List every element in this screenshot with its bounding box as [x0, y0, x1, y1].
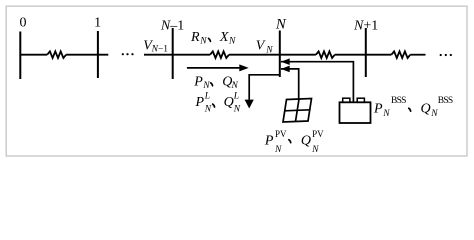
svg-text:P: P: [195, 95, 205, 110]
bus N+1: [365, 28, 367, 77]
power-flow arrow PN QN toward bus N: [187, 64, 249, 71]
svg-text:N: N: [274, 145, 282, 155]
bus N: [279, 31, 281, 78]
voltage label V N: [256, 39, 273, 56]
svg-text:PV: PV: [312, 129, 324, 139]
svg-text:L: L: [233, 92, 239, 102]
svg-text:N: N: [228, 37, 236, 47]
svg-text:1: 1: [94, 15, 101, 30]
svg-text:N: N: [430, 109, 438, 119]
svg-text:N: N: [233, 105, 241, 115]
PV panel symbol: [283, 99, 312, 123]
svg-text:R: R: [190, 30, 200, 45]
svg-text:N−1: N−1: [151, 44, 169, 54]
svg-text:P: P: [193, 75, 203, 90]
bus 0: [19, 32, 21, 80]
bus N-1: [172, 28, 174, 79]
wire RN to RN+1 through bus N: [229, 54, 316, 56]
svg-text:N: N: [265, 45, 273, 55]
svg-text:V: V: [256, 39, 266, 54]
resistor RN+2 (branch after bus N+1): [391, 51, 410, 58]
svg-text:P: P: [373, 102, 383, 117]
svg-text:Q: Q: [224, 95, 234, 110]
arrowhead PV injection into bus N: [281, 66, 290, 73]
wire PV branch to bus N: [281, 69, 299, 100]
PV output label PPVN QPVN: [264, 129, 324, 155]
load label PLN QLN: [195, 92, 241, 115]
ellipsis dots right (feeder continuation): [440, 54, 452, 56]
svg-text:L: L: [204, 92, 210, 102]
battery output label PBSSN QBSSN: [373, 96, 453, 119]
svg-text:Q: Q: [301, 134, 311, 149]
wire bus0 to R1: [20, 54, 47, 56]
svg-text:N: N: [231, 81, 239, 91]
svg-text:N: N: [275, 17, 287, 33]
svg-text:PV: PV: [275, 129, 287, 139]
resistor R1 (branch 0-1 impedance): [47, 51, 66, 58]
voltage label V N-1: [143, 39, 168, 55]
ellipsis dots left (feeder continuation): [122, 53, 134, 55]
svg-text:X: X: [219, 30, 229, 45]
svg-text:BSS: BSS: [438, 96, 453, 106]
wire into bus N-1 and on to resistor RN: [144, 54, 210, 56]
wire RN+2 to feeder end: [410, 54, 425, 56]
svg-text:N–1: N–1: [160, 18, 184, 33]
bus 1: [97, 31, 99, 78]
svg-text:0: 0: [20, 16, 27, 31]
svg-text:BSS: BSS: [391, 96, 406, 106]
svg-text:N: N: [199, 37, 207, 47]
svg-text:N+1: N+1: [353, 18, 378, 33]
svg-text:N: N: [202, 81, 210, 91]
wire RN+1 to RN+2 through bus N+1: [335, 54, 392, 56]
power flow label PN QN: [193, 75, 238, 92]
battery BSS symbol: [340, 98, 371, 123]
load branch at bus N with down arrow: [245, 75, 280, 109]
resistor RN (branch impedance RN XN): [210, 51, 229, 58]
wire battery branch to bus N: [281, 62, 353, 102]
svg-text:Q: Q: [421, 102, 431, 117]
svg-text:N: N: [382, 109, 390, 119]
resistor RN+1 (branch N to N+1): [316, 51, 335, 58]
impedance value label RN XN: [190, 30, 236, 46]
svg-text:P: P: [264, 134, 274, 149]
arrowhead battery injection into bus N: [281, 58, 290, 65]
svg-text:N: N: [204, 105, 212, 115]
wire R1 to past bus1: [66, 54, 108, 56]
svg-text:N: N: [311, 145, 319, 155]
